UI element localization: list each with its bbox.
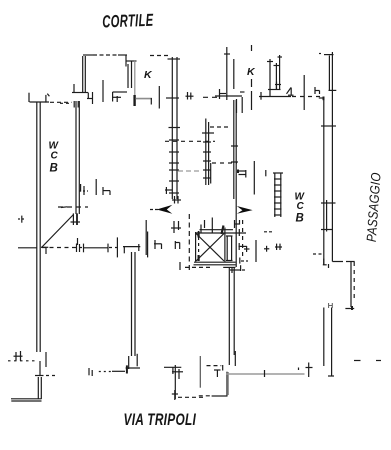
arrow left xyxy=(150,205,172,214)
mid-left wall horizontal xyxy=(18,216,148,258)
door jamb near right wall xyxy=(315,87,324,100)
svg-text:C: C xyxy=(51,151,59,162)
elevator shaft xyxy=(180,214,246,271)
marks below elevator right xyxy=(230,258,248,274)
svg-text:PASSAGGIO: PASSAGGIO xyxy=(364,172,384,242)
door jamb at cortile stub xyxy=(87,92,93,104)
wall east of WCB room (double) xyxy=(60,101,80,245)
svg-text:C: C xyxy=(297,201,305,212)
radiator ladder right-middle xyxy=(273,173,283,218)
door swing diagonal xyxy=(42,207,74,248)
plus marks row center xyxy=(239,220,283,262)
stair left rail (double) xyxy=(166,57,180,199)
wall west of WCB room (double) xyxy=(37,102,40,352)
svg-text:B: B xyxy=(296,213,304,225)
T mark above radiator xyxy=(237,170,266,178)
svg-text:H: H xyxy=(328,301,333,310)
door lintel below K2 xyxy=(215,89,245,113)
t mark bottom right xyxy=(299,363,313,378)
label WCB left xyxy=(49,141,60,175)
right-top room walls xyxy=(267,55,282,97)
svg-text:VIA TRIPOLI: VIA TRIPOLI xyxy=(124,411,197,429)
svg-text:B: B xyxy=(50,163,58,175)
svg-text:K: K xyxy=(247,66,256,78)
stair right rail foot jamb xyxy=(234,220,240,228)
right outer wall (double) xyxy=(319,52,336,265)
center-left wall lower (double) xyxy=(89,252,140,376)
tt door marks bottom far-left xyxy=(8,351,40,375)
wall cortile stub (double) xyxy=(72,56,88,93)
single line right middle xyxy=(303,75,305,110)
arrow right xyxy=(237,206,253,214)
label WCB right xyxy=(295,192,306,225)
stair left rail foot marks xyxy=(171,196,181,233)
landing ticks below stairs xyxy=(205,220,240,236)
svg-text:CORTILE: CORTILE xyxy=(102,11,154,32)
small marks left-center xyxy=(79,179,180,255)
right wall lower (double) xyxy=(324,308,334,377)
door bottom-left xyxy=(35,352,58,376)
right wall step to passage xyxy=(313,254,355,268)
wall top-left horizontal xyxy=(29,93,72,103)
wall below elevator (double) xyxy=(229,268,235,366)
dash-dot line mid left xyxy=(58,206,88,208)
dashes bottom right xyxy=(354,360,361,362)
passage east wall xyxy=(345,262,354,311)
gray street line xyxy=(226,370,305,377)
stair middle rail (double) xyxy=(165,119,254,195)
wall under right-top rooms xyxy=(259,88,294,100)
svg-text:K: K xyxy=(144,69,153,81)
door area center bottom xyxy=(199,356,229,396)
center wall top xyxy=(224,47,234,100)
dashed link to right wall xyxy=(292,96,322,98)
dashed property line center xyxy=(251,45,253,110)
bottom middle door structure xyxy=(164,365,204,400)
kitchen K1 walls xyxy=(103,60,159,109)
stair right rail (double) xyxy=(231,100,238,267)
top wall toward cortile xyxy=(83,55,169,67)
left wall bottom corner xyxy=(11,377,42,401)
dashed line top middle xyxy=(186,92,222,100)
